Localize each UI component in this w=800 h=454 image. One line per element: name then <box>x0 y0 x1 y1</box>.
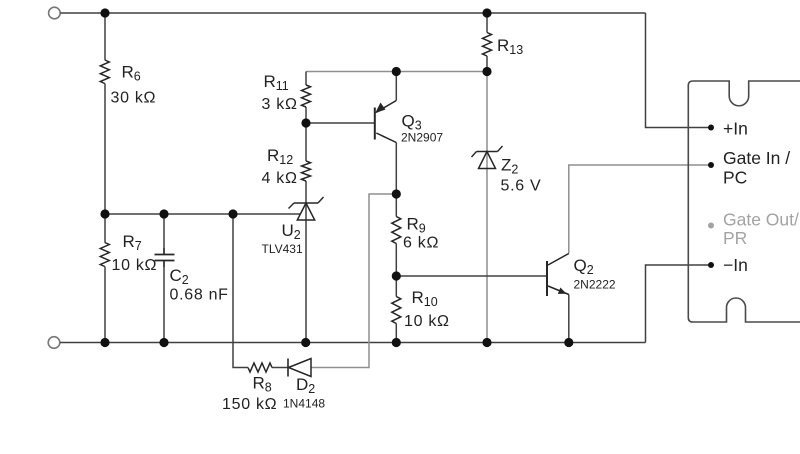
wire left branch R6 to R7 <box>104 84 106 243</box>
svg-text:2N2222: 2N2222 <box>574 278 616 292</box>
svg-text:30 kΩ: 30 kΩ <box>111 90 157 107</box>
resistor R13 <box>483 33 524 58</box>
svg-text:2N2907: 2N2907 <box>401 131 443 145</box>
svg-text:TLV431: TLV431 <box>262 242 303 256</box>
resistor R9 <box>392 215 439 252</box>
wire Q3 base <box>306 122 375 124</box>
input terminal bottom-left <box>48 337 60 349</box>
wire Q3 collector lead to node <box>395 143 397 217</box>
resistor R11 <box>262 72 311 113</box>
wire bottom rail <box>60 342 646 344</box>
junction C2 node row <box>159 209 168 218</box>
junction bottom rail U2 <box>301 338 310 347</box>
wire top rail <box>60 12 645 14</box>
svg-text:150 kΩ: 150 kΩ <box>222 396 277 413</box>
junction R11 R12 Q3 base <box>301 118 310 127</box>
junction R13 / Z2 node <box>482 67 491 76</box>
wire Q2 collector to Gate In pin (gray) <box>569 165 711 254</box>
wire Z2 branch (gray, R13 bottom node to bottom rail) <box>486 72 488 343</box>
svg-text:−In: −In <box>723 255 748 275</box>
zener diode Z2 <box>472 146 542 195</box>
wire R13 bottom lead <box>486 56 488 72</box>
svg-text:PR: PR <box>723 228 747 248</box>
resistor R10 <box>392 288 450 330</box>
shunt regulator U2 <box>262 197 324 256</box>
wire R11 top lead <box>305 72 307 86</box>
wire node row (R7/C2/U2 reference) <box>105 213 300 215</box>
input terminal top-left <box>49 7 61 19</box>
svg-text:1N4148: 1N4148 <box>283 397 325 411</box>
junction R8 branch node <box>228 209 237 218</box>
connector body <box>688 81 800 322</box>
svg-text:Gate In /: Gate In / <box>723 148 790 168</box>
svg-text:3 kΩ: 3 kΩ <box>262 96 298 113</box>
wire R11 to R12 <box>305 107 307 161</box>
wire R8 branch down <box>233 214 248 368</box>
svg-text:5.6 V: 5.6 V <box>501 178 542 195</box>
resistor R12 <box>262 146 311 187</box>
svg-text:0.68 nF: 0.68 nF <box>170 287 229 304</box>
junction bottom rail R10 <box>392 338 401 347</box>
capacitor C2 <box>155 248 229 304</box>
pin Gate In / PC <box>708 148 790 188</box>
svg-text:10 kΩ: 10 kΩ <box>404 313 450 330</box>
wire Q2 emitter to bottom rail <box>568 295 570 343</box>
junction bottom rail Z2 <box>482 338 491 347</box>
junction Q3 emitter / supply node <box>392 67 401 76</box>
svg-text:+In: +In <box>723 119 748 139</box>
wire +In lead (top rail to +In pin) <box>646 13 712 128</box>
junction bottom rail Q2 emitter <box>564 338 573 347</box>
diode D2 <box>283 359 325 411</box>
resistor R6 <box>100 60 156 107</box>
junction R9 R10 Q2 base <box>392 271 401 280</box>
svg-text:Gate Out/: Gate Out/ <box>723 210 799 230</box>
wire Q3 emitter lead to top node <box>395 72 397 101</box>
wire Q2 base <box>396 275 547 277</box>
resistor R8 <box>222 363 277 413</box>
wire C2 branch bottom <box>163 261 165 343</box>
svg-text:4 kΩ: 4 kΩ <box>262 170 298 187</box>
transistor Q3 <box>375 101 444 145</box>
junction top rail / R13 <box>482 8 491 17</box>
junction bottom rail R7 <box>100 338 109 347</box>
wire R13 top lead <box>486 13 488 33</box>
pin Gate Out / PR (inactive) <box>708 210 799 249</box>
svg-text:6 kΩ: 6 kΩ <box>403 235 439 252</box>
wire R12 to U2 and through to bottom rail <box>305 181 307 343</box>
junction bottom rail C2 <box>159 338 168 347</box>
wire left branch below R7 <box>104 267 106 343</box>
wire R8 to D2 <box>272 367 288 369</box>
svg-text:10 kΩ: 10 kΩ <box>112 257 158 274</box>
pin -In <box>708 255 748 275</box>
wire D2 anode riser (gray) to Q3 collector node <box>311 194 396 368</box>
wire -In lead (bottom rail to -In pin) <box>646 265 712 343</box>
wire R11 top feed (gray, below R13) <box>306 71 487 73</box>
wire left branch above R6 <box>104 13 106 60</box>
transistor Q2 <box>547 254 616 297</box>
wire C2 branch top <box>163 214 165 255</box>
wire R10 to bottom rail <box>395 324 397 343</box>
junction R7 node row <box>100 209 109 218</box>
pin +In <box>708 119 748 139</box>
resistor R7 <box>100 232 157 274</box>
wire R9 to R10 <box>395 244 397 297</box>
junction Q3 collector / R9 / D2 <box>392 189 401 198</box>
junction top rail / R6 <box>100 8 109 17</box>
svg-text:PC: PC <box>723 168 747 188</box>
